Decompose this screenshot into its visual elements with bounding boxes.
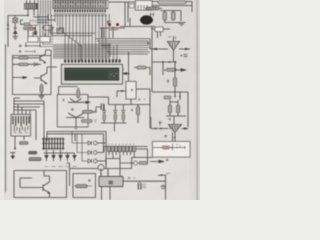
junction dot bbox=[128, 73, 130, 75]
wire bus left fan corners bbox=[40, 14, 53, 47]
capacitor marks on vertical bbox=[161, 184, 167, 188]
wire caps bottom join bbox=[101, 121, 127, 132]
LCD screen bbox=[65, 68, 120, 81]
transistor Q3 bbox=[63, 98, 90, 104]
wire bottom link bbox=[70, 157, 153, 168]
resistor R20 vertical bbox=[176, 100, 179, 116]
arrow into B3 bbox=[117, 90, 126, 97]
ground G3 bbox=[39, 96, 45, 99]
wire node bbox=[28, 25, 36, 40]
wire comb drops bbox=[44, 150, 75, 153]
wire r11 bbox=[134, 68, 150, 76]
wire U1 right pins up bbox=[108, 2, 135, 27]
wire arrow drops bbox=[47, 153, 75, 156]
wire bottom right verticals bbox=[158, 175, 165, 200]
IC U3 body bbox=[11, 115, 31, 137]
resistor R19 vertical bbox=[168, 100, 171, 116]
label marks above U2 bbox=[168, 37, 176, 40]
diode D7 vertical bbox=[77, 88, 80, 98]
wire down pair bbox=[102, 28, 105, 38]
wire bundle right drops bbox=[148, 39, 150, 49]
wire B3 right bbox=[136, 89, 150, 129]
label left of feedback bbox=[164, 135, 168, 139]
arrow sym A6 bbox=[73, 156, 76, 162]
wire S1 pins bbox=[152, 27, 161, 50]
resistor R17 bbox=[164, 68, 185, 71]
label row E bbox=[19, 44, 41, 47]
relay box K1 bbox=[136, 1, 153, 11]
wire U5 feedback bbox=[172, 133, 174, 142]
wire drop bbox=[162, 62, 164, 75]
wire connector drops bbox=[106, 155, 134, 177]
capacitor C2 vertical bbox=[163, 12, 167, 20]
diode D8 bbox=[82, 134, 97, 163]
resistor R3 long bbox=[152, 1, 192, 12]
resistor R10 bbox=[82, 120, 93, 123]
junction dots on y62 bbox=[162, 61, 164, 63]
transistor Q6 with red dots bbox=[100, 21, 125, 38]
diode D4 bbox=[72, 132, 97, 146]
diode D6 red inside B6 bbox=[153, 144, 186, 151]
capacitor C4 bbox=[93, 104, 104, 113]
arrow down A1 bbox=[10, 153, 16, 159]
diode bridge D1 bbox=[13, 18, 18, 28]
wire B3 bottom bbox=[130, 99, 132, 105]
resistor R6 bbox=[19, 63, 28, 66]
module U4 box bbox=[99, 177, 123, 187]
capacitor C1 bbox=[34, 31, 37, 35]
arrow left at LCD right bbox=[123, 73, 129, 75]
transistor Q1 bbox=[28, 54, 46, 63]
wire diode outs bbox=[97, 132, 106, 166]
op-amp U5 bbox=[151, 125, 189, 142]
wire right block rails bbox=[152, 49, 188, 127]
arrow sym A2 bbox=[45, 156, 48, 162]
label k1 bbox=[108, 20, 112, 23]
transistor Q10 big circle bbox=[98, 165, 104, 171]
capacitor C8 bbox=[138, 181, 146, 189]
resistor R14 bbox=[29, 158, 41, 161]
top-left IC U6 bbox=[25, 4, 38, 10]
driver box B2 bbox=[57, 95, 88, 128]
wire above connector bbox=[104, 147, 148, 153]
enclosure box B4 bbox=[14, 171, 67, 198]
wire long mid horizontals bbox=[50, 26, 95, 36]
comp below rail bbox=[164, 92, 181, 100]
LCD pin number ticks bbox=[65, 57, 119, 59]
label box L1 bbox=[30, 21, 38, 26]
arrow sym A4 bbox=[59, 156, 62, 162]
LCD screen right lighter bbox=[108, 71, 118, 80]
wire B3 top bbox=[128, 52, 130, 82]
switch box S1 bbox=[155, 27, 163, 32]
left scan margin bbox=[0, 0, 4, 200]
crystal X1 bbox=[42, 26, 54, 31]
module U4 pin marks bbox=[100, 173, 109, 176]
label above U5 bbox=[168, 118, 171, 122]
capacitor C3 vertical bbox=[172, 12, 176, 20]
wire into B2 bbox=[59, 87, 78, 95]
tick mark bbox=[167, 173, 170, 175]
op-amp U2 bbox=[150, 36, 190, 62]
wire U4 right bbox=[123, 180, 166, 182]
small box S2 bbox=[28, 37, 38, 43]
resistor R1 bbox=[24, 23, 34, 26]
connector J1 pin fringe bbox=[109, 152, 134, 156]
transformer blob T1 bbox=[140, 16, 152, 25]
transistor Q9 bbox=[66, 108, 84, 127]
resistor R13 bbox=[20, 142, 29, 145]
capacitor C7 bbox=[121, 105, 125, 121]
label left of B3 bbox=[122, 68, 125, 71]
LCD screen shade bbox=[66, 69, 119, 71]
U1 pin labels strip bbox=[54, 13, 106, 15]
wire bundle horizontal to LCD bbox=[53, 45, 111, 59]
diode D3 bbox=[33, 63, 38, 67]
wire staircase to LCD pins bbox=[63, 14, 83, 61]
wire exit right bbox=[46, 50, 58, 67]
paper background bbox=[0, 0, 200, 200]
bus labels bbox=[74, 127, 78, 130]
label row F bbox=[19, 50, 36, 53]
wire left rail bbox=[8, 16, 28, 19]
wire long bus x2 bbox=[47, 132, 106, 142]
resistor R16 bbox=[74, 179, 92, 188]
wire from left bbox=[14, 98, 20, 101]
terminal comb TB1 bbox=[42, 137, 65, 150]
resistor R9 bbox=[83, 110, 93, 113]
wire below U3 bbox=[15, 136, 24, 149]
MCU U1 body bbox=[53, 0, 108, 9]
polarity marks bbox=[7, 24, 10, 30]
wires top-left to U6 bbox=[27, 0, 35, 4]
wire between boxes bbox=[67, 163, 70, 186]
wire U4 bottom bbox=[102, 187, 111, 201]
wire right bundle bbox=[95, 39, 150, 54]
label marks right of pills bbox=[94, 111, 97, 122]
junction dot bbox=[27, 15, 29, 17]
transistor Q7 bbox=[120, 161, 138, 165]
comp left of U5 bbox=[151, 117, 163, 129]
small box S3 bbox=[40, 37, 50, 43]
box B3 inner dot bbox=[131, 89, 133, 91]
wire left inner bbox=[13, 32, 46, 78]
wire fan extra verticals bbox=[55, 14, 83, 61]
LCD pin pads bbox=[64, 59, 120, 62]
resistor R2 (pink tint) bbox=[24, 27, 34, 30]
label ticks under arrows bbox=[45, 166, 77, 168]
center tall box B3 bbox=[126, 82, 136, 100]
wire + arrow bottom right bbox=[150, 159, 169, 163]
wire right top join bbox=[120, 18, 170, 29]
wires from top edge bbox=[38, 0, 51, 14]
ground G1 bbox=[13, 37, 19, 40]
resistor R5 bbox=[19, 57, 28, 60]
resistor R12 vertical bbox=[131, 105, 140, 124]
comp dark bbox=[29, 151, 38, 154]
LED D2 arrow bbox=[13, 28, 17, 36]
module U4 label bbox=[109, 181, 114, 185]
resistor R7 vertical bbox=[40, 85, 43, 93]
U1 pin blob row bbox=[54, 10, 106, 13]
wire bus above U3 bbox=[14, 101, 44, 150]
connector J1 pads bbox=[108, 146, 136, 151]
wire caps top bbox=[160, 11, 181, 23]
label marks top right bbox=[138, 98, 146, 101]
resistor R18 vertical bbox=[167, 62, 177, 92]
ground G2 bbox=[178, 23, 186, 26]
wire b4 inner bbox=[20, 178, 35, 188]
enclosure box B1 bbox=[6, 42, 27, 192]
comp right of U2 bbox=[181, 55, 188, 57]
small box on wire bbox=[130, 4, 135, 8]
LCD module DS1 frame bbox=[62, 65, 123, 85]
label above wire bbox=[128, 177, 136, 180]
wire pills join bbox=[166, 102, 186, 125]
capacitor C6 bbox=[113, 105, 117, 121]
junction dot bbox=[14, 148, 16, 150]
resistor R11 bbox=[137, 66, 146, 69]
IC U7 small bbox=[57, 28, 64, 34]
resistor R4 bbox=[145, 7, 162, 10]
diode D5 bbox=[77, 134, 97, 155]
transistor Q5 bbox=[150, 13, 154, 17]
LCD screen specks bbox=[111, 74, 117, 77]
enclosure box B5 bbox=[73, 174, 96, 198]
wire misc top joins bbox=[33, 14, 55, 23]
connector pin number ticks bbox=[109, 144, 134, 146]
wire U6 down bbox=[28, 9, 34, 16]
arrow sym A5 bbox=[66, 156, 69, 162]
transistor Q2 bbox=[28, 64, 51, 83]
resistor R15 bbox=[139, 157, 148, 164]
arrow sym A3 bbox=[52, 156, 55, 162]
wire direct drops to LCD pins bbox=[85, 14, 105, 61]
wire right LCD pins bbox=[109, 14, 117, 61]
box B6 bbox=[153, 142, 191, 158]
arrow left Q2 bbox=[19, 77, 27, 79]
transistor Q8 bbox=[35, 171, 50, 198]
wire mid-left bbox=[21, 20, 39, 28]
module U4 pins bbox=[101, 169, 108, 177]
wire q2 down bbox=[41, 84, 43, 96]
wire connector right bbox=[136, 149, 148, 157]
wire net above caps bbox=[88, 97, 150, 105]
capacitor C5 bbox=[102, 105, 106, 121]
right scan edge band bbox=[194, 0, 200, 200]
